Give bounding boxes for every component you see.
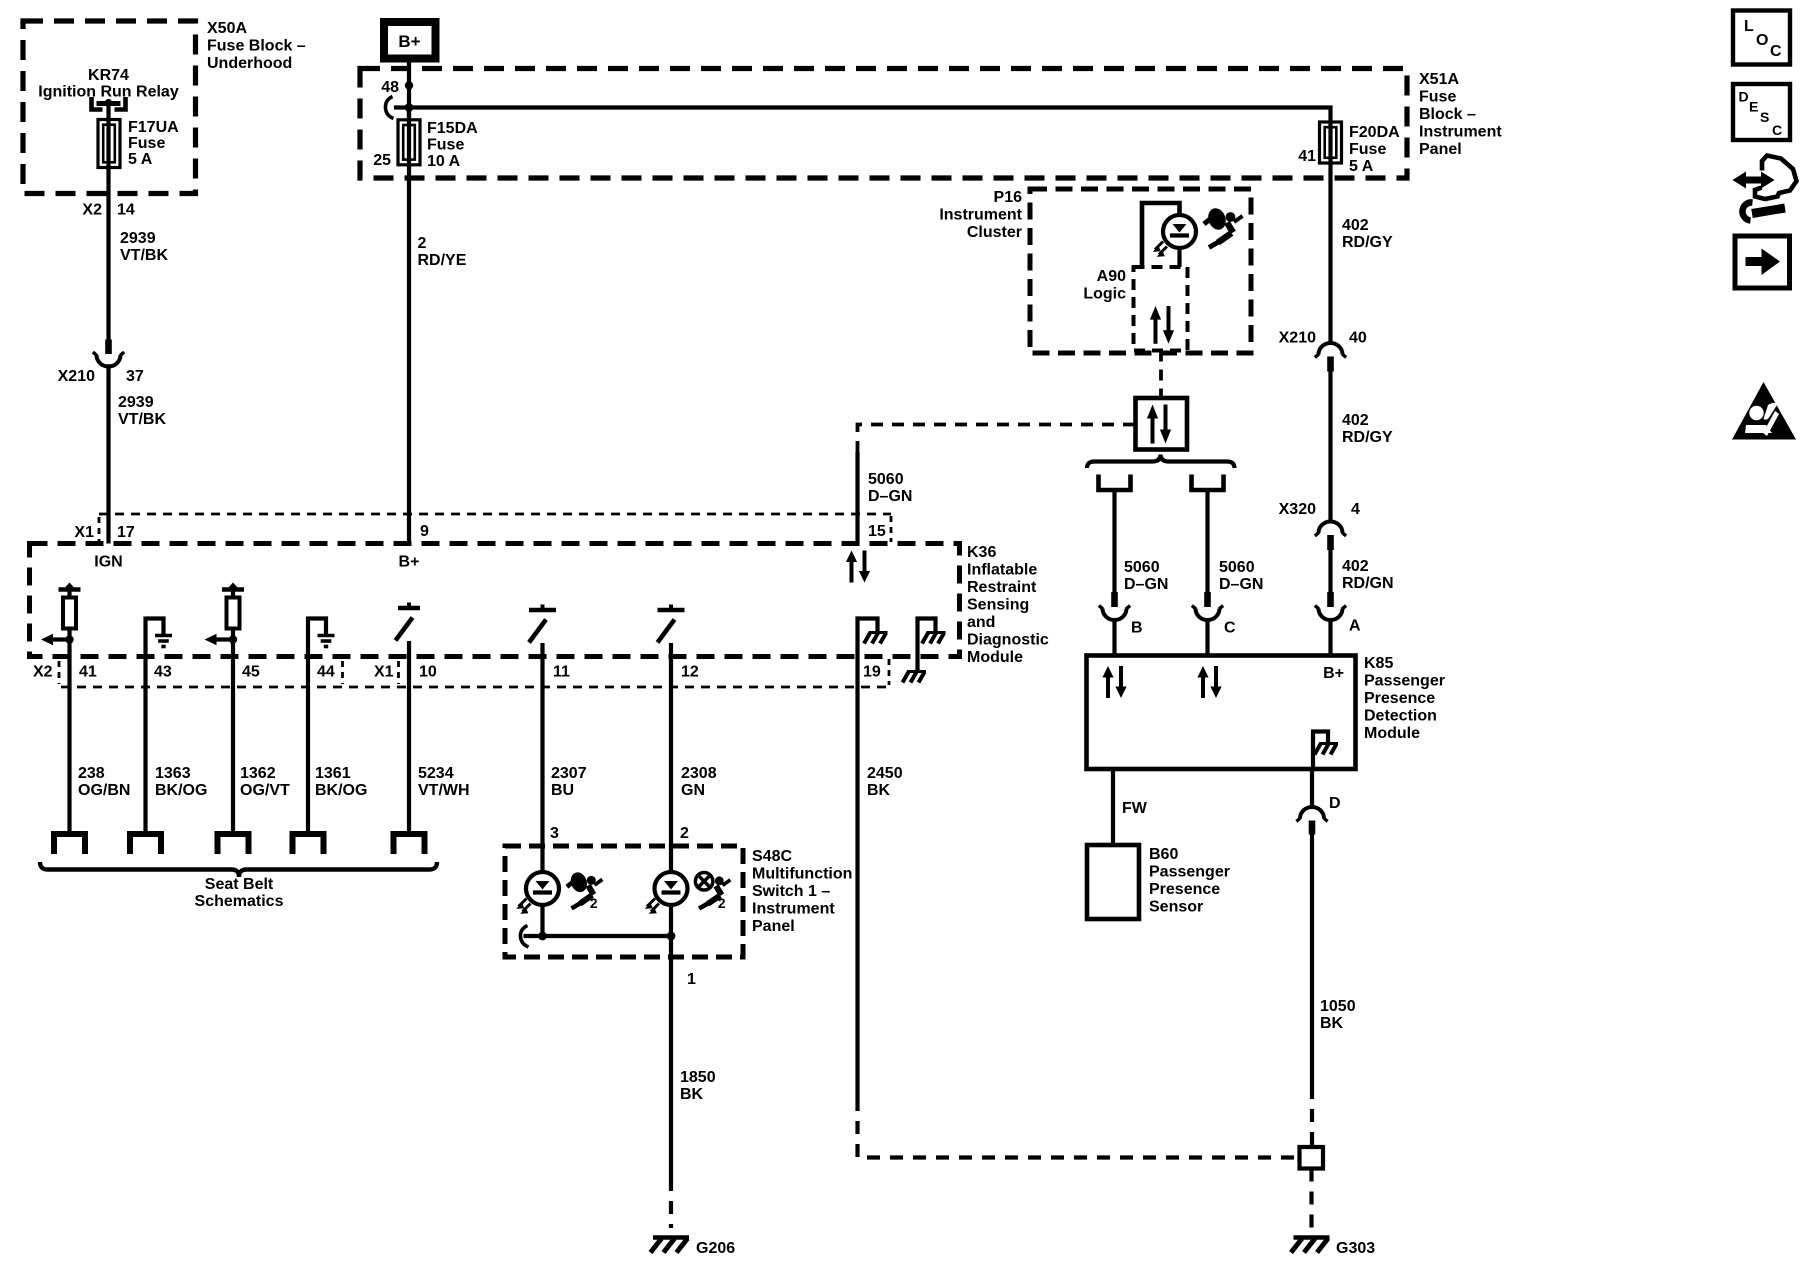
wire K36 pin 12 to S48C pin 2 xyxy=(669,657,673,873)
label A90 Logic xyxy=(1083,268,1126,303)
terminal bracket 1361 xyxy=(293,834,324,854)
label X210 40 xyxy=(1279,330,1367,347)
icon airbag with driver belt in S48C xyxy=(567,870,602,911)
ground G206 xyxy=(651,1238,736,1258)
svg-text:402: 402 xyxy=(1342,558,1369,575)
component seat belt driver pin 41 (resistor and arrow) xyxy=(41,583,81,657)
wire seat belt 238 OG/BN xyxy=(67,657,71,837)
svg-text:BK: BK xyxy=(867,782,891,799)
svg-text:FW: FW xyxy=(1122,800,1148,817)
wire label 1363 BK/OG xyxy=(155,765,207,799)
wire label 1850 BK xyxy=(680,1069,716,1103)
component switch pin 10 xyxy=(396,603,421,657)
svg-text:RD/GY: RD/GY xyxy=(1342,234,1393,251)
svg-text:OG/BN: OG/BN xyxy=(78,782,130,799)
wire seat belt 5234 VT/WH xyxy=(407,657,411,837)
wire seat belt 1363 BK/OG xyxy=(143,657,147,837)
battery feed B+ box xyxy=(384,22,436,59)
svg-text:D: D xyxy=(1329,795,1341,812)
svg-text:IGN: IGN xyxy=(94,554,122,571)
connector X320 pin 4 inline xyxy=(1315,522,1346,551)
wire S48C pin 1 down xyxy=(669,936,673,1178)
terminal bracket 1363 xyxy=(130,834,161,854)
indicator LED in cluster xyxy=(1153,215,1196,257)
svg-text:Underhood: Underhood xyxy=(207,55,292,72)
svg-text:BU: BU xyxy=(551,782,574,799)
icon airbag off with X in S48C xyxy=(695,873,730,911)
wire label 1362 OG/VT xyxy=(240,765,290,799)
svg-text:5 A: 5 A xyxy=(128,151,153,168)
svg-text:GN: GN xyxy=(681,782,705,799)
svg-text:Multifunction: Multifunction xyxy=(752,866,852,883)
wire label 5060 D-GN (C) xyxy=(1219,559,1263,593)
wire bus B+ horizontal to F20DA xyxy=(394,108,1331,123)
wire F15DA to K36 pin 9 xyxy=(407,165,411,544)
svg-text:S: S xyxy=(1760,109,1769,125)
pin row top K36 (X1 17, 9, 15) xyxy=(99,514,891,542)
wire dashed splice to G303 xyxy=(1309,1169,1313,1229)
node pin 48 junction dot xyxy=(381,79,413,96)
wire fuse F17UA to connector X210 xyxy=(106,167,110,340)
svg-text:D–GN: D–GN xyxy=(1219,576,1263,593)
svg-text:Detection: Detection xyxy=(1364,708,1437,725)
indicator LED left in S48C xyxy=(516,872,559,914)
wire label 1050 BK xyxy=(1320,998,1356,1032)
svg-text:C: C xyxy=(1770,43,1782,60)
svg-text:Block –: Block – xyxy=(1419,106,1476,123)
serial data arrows in K85 left xyxy=(1102,666,1126,698)
svg-text:X51A: X51A xyxy=(1419,71,1459,88)
wire label 5060 D-GN (B) xyxy=(1124,559,1168,593)
module K85 box xyxy=(1087,656,1356,770)
label X320 4 xyxy=(1279,501,1360,518)
svg-text:9: 9 xyxy=(420,523,429,540)
wire label 402 RD/GY upper xyxy=(1342,217,1393,251)
svg-text:BK: BK xyxy=(1320,1015,1344,1032)
svg-text:10: 10 xyxy=(419,664,437,681)
wire label 2939 VT/BK upper xyxy=(120,230,168,264)
label K85 Passenger Presence Detection Module xyxy=(1364,655,1445,742)
wire label 5234 VT/WH xyxy=(418,765,470,799)
svg-text:BK/OG: BK/OG xyxy=(155,782,207,799)
svg-text:B+: B+ xyxy=(1323,665,1344,682)
svg-text:RD/GN: RD/GN xyxy=(1342,575,1394,592)
hook symbol in S48C xyxy=(520,926,528,948)
connector X210 pin 40 inline xyxy=(1315,343,1346,372)
svg-text:Switch 1 –: Switch 1 – xyxy=(752,883,830,900)
svg-text:Logic: Logic xyxy=(1083,286,1126,303)
svg-text:Fuse: Fuse xyxy=(1349,141,1386,158)
connector K85 pin B inline xyxy=(1099,592,1143,637)
splice junction box xyxy=(1300,1147,1324,1169)
svg-text:2: 2 xyxy=(680,825,689,842)
svg-text:D: D xyxy=(1739,89,1749,105)
svg-text:G303: G303 xyxy=(1336,1240,1375,1257)
instrument cluster P16 box xyxy=(1030,189,1251,353)
svg-text:5060: 5060 xyxy=(868,471,904,488)
wire K36 pin 19 2450 BK xyxy=(855,657,859,1099)
svg-text:RD/GY: RD/GY xyxy=(1342,429,1393,446)
wire label 5060 D-GN (pin 15) xyxy=(868,471,912,505)
wire 5060 D-GN to connector B xyxy=(1112,490,1116,593)
svg-text:Instrument: Instrument xyxy=(939,207,1022,224)
wire B to K85 xyxy=(1112,621,1116,656)
svg-text:Instrument: Instrument xyxy=(1419,124,1502,141)
wire label 2 RD/YE xyxy=(418,235,467,269)
terminal bracket 238 xyxy=(54,834,85,854)
svg-text:1050: 1050 xyxy=(1320,998,1356,1015)
connector D inline xyxy=(1296,807,1327,835)
wire label 2939 VT/BK lower xyxy=(118,394,166,428)
svg-text:5060: 5060 xyxy=(1124,559,1160,576)
label K36 Inflatable Restraint Sensing and Diagnostic Module xyxy=(967,544,1049,666)
svg-text:43: 43 xyxy=(154,664,172,681)
svg-text:Sensor: Sensor xyxy=(1149,899,1203,916)
label KR74 Ignition Run Relay xyxy=(38,67,179,101)
switch assembly S48C box xyxy=(505,846,743,957)
svg-text:48: 48 xyxy=(381,79,399,96)
svg-text:4: 4 xyxy=(1351,501,1360,518)
svg-text:5 A: 5 A xyxy=(1349,158,1374,175)
brace under data link box xyxy=(1087,455,1235,469)
icon DESC box xyxy=(1733,84,1790,140)
icon LOC box xyxy=(1733,11,1790,65)
wire K85 pin D down xyxy=(1310,769,1314,807)
serial data arrows below pin 15 xyxy=(846,551,870,583)
wire label 402 RD/GN xyxy=(1342,558,1394,592)
component ground pin 43 (earth symbol) xyxy=(146,617,173,657)
logic block A90 box xyxy=(1134,267,1188,351)
fuse F17UA xyxy=(98,120,120,168)
svg-text:17: 17 xyxy=(117,524,135,541)
svg-text:A90: A90 xyxy=(1097,268,1126,285)
svg-text:Cluster: Cluster xyxy=(967,224,1022,241)
component seat belt driver pin 45 (resistor and arrow) xyxy=(205,583,245,657)
svg-text:Passenger: Passenger xyxy=(1149,864,1230,881)
connector K85 pin A inline xyxy=(1315,592,1361,635)
terminal bracket wire B xyxy=(1099,475,1131,491)
wire dashed 1050 BK to splice xyxy=(1310,1086,1314,1147)
wire X320 to connector A xyxy=(1328,550,1332,593)
wire A to K85 xyxy=(1328,621,1332,656)
ground G303 xyxy=(1291,1238,1375,1258)
svg-text:Module: Module xyxy=(967,649,1023,666)
serial data link box with arrows xyxy=(1136,398,1188,450)
svg-text:1363: 1363 xyxy=(155,765,191,782)
svg-text:1: 1 xyxy=(687,971,696,988)
svg-text:Presence: Presence xyxy=(1364,690,1435,707)
label F17UA Fuse 5 A xyxy=(128,119,179,168)
wire B+ box down xyxy=(407,59,411,121)
fuse F15DA xyxy=(398,107,420,165)
svg-text:Restraint: Restraint xyxy=(967,579,1037,596)
svg-text:B+: B+ xyxy=(398,32,420,51)
svg-text:Fuse: Fuse xyxy=(427,137,464,154)
icon diagnostic tool (arrows and wrench) xyxy=(1733,156,1797,221)
svg-text:VT/BK: VT/BK xyxy=(120,247,168,264)
pin label X1 17 xyxy=(74,524,134,541)
label X50A Fuse Block - Underhood xyxy=(207,20,306,72)
svg-text:F20DA: F20DA xyxy=(1349,124,1400,141)
label P16 Instrument Cluster xyxy=(939,189,1022,241)
svg-text:2308: 2308 xyxy=(681,765,717,782)
svg-text:G206: G206 xyxy=(696,1240,735,1257)
svg-text:Schematics: Schematics xyxy=(195,893,284,910)
wire dashed serial data to K36 pin 15 xyxy=(858,425,1136,453)
svg-text:14: 14 xyxy=(117,202,135,219)
bus continuation hook symbol xyxy=(385,97,393,119)
svg-text:5060: 5060 xyxy=(1219,559,1255,576)
svg-text:BK: BK xyxy=(680,1086,704,1103)
terminal bracket 1362 xyxy=(218,834,249,854)
svg-text:C: C xyxy=(1772,122,1782,138)
pin row bottom K36 xyxy=(59,659,889,687)
label F20DA Fuse 5 A xyxy=(1349,124,1400,175)
svg-text:2: 2 xyxy=(718,896,726,911)
svg-text:X1: X1 xyxy=(374,664,394,681)
terminal bracket wire C xyxy=(1192,475,1224,491)
svg-text:B+: B+ xyxy=(399,554,420,571)
svg-text:2939: 2939 xyxy=(120,230,156,247)
svg-text:Fuse: Fuse xyxy=(128,135,165,152)
wire K36 pin 15 lead xyxy=(855,452,859,544)
svg-text:Module: Module xyxy=(1364,725,1420,742)
wire K36 pin 11 to S48C pin 3 xyxy=(540,657,544,873)
wire label 2308 GN xyxy=(681,765,717,799)
svg-text:S48C: S48C xyxy=(752,848,792,865)
wire dashed 2450 BK to splice xyxy=(858,1098,1300,1158)
svg-text:402: 402 xyxy=(1342,412,1369,429)
wire bracket LED to A90 xyxy=(1142,203,1180,267)
svg-text:15: 15 xyxy=(868,523,886,540)
label Seat Belt Schematics xyxy=(195,876,284,910)
svg-text:10 A: 10 A xyxy=(427,153,461,170)
svg-text:2307: 2307 xyxy=(551,765,587,782)
svg-text:40: 40 xyxy=(1349,330,1367,347)
wire label 2307 BU xyxy=(551,765,587,799)
svg-text:11: 11 xyxy=(553,664,570,681)
svg-text:X320: X320 xyxy=(1279,501,1316,518)
label F15DA Fuse 10 A xyxy=(427,120,478,170)
serial data arrows in K85 right xyxy=(1197,666,1221,698)
wire LED to A90 logic xyxy=(1177,248,1181,267)
connector K85 pin C inline xyxy=(1192,592,1236,637)
fuse F20DA xyxy=(1320,122,1342,167)
serial data arrows in A90 xyxy=(1150,306,1174,344)
svg-text:Instrument: Instrument xyxy=(752,901,835,918)
svg-text:C: C xyxy=(1224,620,1236,637)
wire seat belt 1361 BK/OG xyxy=(306,657,310,837)
wire LED cathodes common xyxy=(524,905,676,940)
component ground internal second xyxy=(903,619,946,683)
relay KR74 contact symbol xyxy=(92,97,126,110)
svg-text:37: 37 xyxy=(126,368,144,385)
svg-text:5234: 5234 xyxy=(418,765,454,782)
svg-text:Seat Belt: Seat Belt xyxy=(205,876,274,893)
svg-text:B60: B60 xyxy=(1149,846,1178,863)
svg-text:Sensing: Sensing xyxy=(967,597,1029,614)
svg-text:2: 2 xyxy=(418,235,427,252)
svg-text:Panel: Panel xyxy=(752,918,795,935)
svg-text:X50A: X50A xyxy=(207,20,247,37)
svg-text:KR74: KR74 xyxy=(88,67,129,84)
icon airbag warning in cluster xyxy=(1204,206,1243,248)
svg-text:402: 402 xyxy=(1342,217,1369,234)
svg-text:X2: X2 xyxy=(33,664,53,681)
wire dashed to G206 xyxy=(669,1178,673,1228)
terminal bracket 5234 xyxy=(394,834,425,854)
svg-text:P16: P16 xyxy=(994,189,1023,206)
svg-text:25: 25 xyxy=(373,152,391,169)
svg-text:1361: 1361 xyxy=(315,765,351,782)
component ground pin 44 (earth symbol) xyxy=(308,617,335,657)
svg-text:X1: X1 xyxy=(74,524,94,541)
svg-text:Presence: Presence xyxy=(1149,881,1220,898)
module K36 box xyxy=(30,544,960,657)
svg-text:K36: K36 xyxy=(967,544,996,561)
wire X210 to K36 pin 17 xyxy=(106,364,110,543)
svg-text:D–GN: D–GN xyxy=(1124,576,1168,593)
svg-text:X210: X210 xyxy=(1279,330,1316,347)
component ground internal K85 xyxy=(1313,732,1338,770)
connector X210 pin 37 inline xyxy=(93,340,124,367)
wire label 402 RD/GY lower xyxy=(1342,412,1393,446)
fuse block X51A box xyxy=(360,69,1407,179)
label B60 Passenger Presence Sensor xyxy=(1149,846,1230,916)
svg-text:Ignition Run Relay: Ignition Run Relay xyxy=(38,84,179,101)
svg-text:2: 2 xyxy=(590,896,598,911)
wire dashed A90 to data box xyxy=(1159,351,1163,399)
svg-text:44: 44 xyxy=(317,664,335,681)
pin label X2 14 xyxy=(82,202,134,219)
wire X210-40 to X320 xyxy=(1328,372,1332,522)
svg-text:1362: 1362 xyxy=(240,765,276,782)
svg-text:B: B xyxy=(1131,620,1143,637)
svg-text:Inflatable: Inflatable xyxy=(967,562,1037,579)
svg-text:L: L xyxy=(1744,18,1754,35)
wire label 2450 BK xyxy=(867,765,903,799)
node bus junction dot xyxy=(405,103,414,112)
svg-text:45: 45 xyxy=(242,664,260,681)
svg-text:Diagnostic: Diagnostic xyxy=(967,632,1049,649)
component switch pin 11 xyxy=(529,605,556,657)
svg-text:O: O xyxy=(1756,32,1768,49)
wire 5060 D-GN to connector C xyxy=(1205,490,1209,593)
wire C to K85 xyxy=(1205,621,1209,656)
svg-text:RD/YE: RD/YE xyxy=(418,252,467,269)
fuse block X50A box xyxy=(23,21,196,194)
wire F20DA to X210 pin 40 xyxy=(1328,167,1332,343)
label X51A Fuse Block - Instrument Panel xyxy=(1419,71,1502,158)
pin label X2 41 43 45 44 X1 10 11 12 19 xyxy=(33,664,881,681)
svg-text:BK/OG: BK/OG xyxy=(315,782,367,799)
svg-text:Fuse Block –: Fuse Block – xyxy=(207,38,306,55)
label S48C Multifunction Switch 1 - Instrument Panel xyxy=(752,848,852,935)
indicator LED right in S48C xyxy=(645,872,688,914)
svg-text:and: and xyxy=(967,614,995,631)
svg-text:Passenger: Passenger xyxy=(1364,673,1445,690)
wire label 1361 BK/OG xyxy=(315,765,367,799)
label X210 37 xyxy=(58,368,144,385)
sensor B60 box xyxy=(1087,845,1139,919)
svg-text:Panel: Panel xyxy=(1419,141,1462,158)
wire 1050 BK xyxy=(1310,835,1314,1087)
brace seat belt schematics xyxy=(40,862,437,877)
svg-text:2450: 2450 xyxy=(867,765,903,782)
svg-text:A: A xyxy=(1349,618,1361,635)
svg-text:1850: 1850 xyxy=(680,1069,716,1086)
svg-text:X2: X2 xyxy=(82,202,102,219)
svg-text:238: 238 xyxy=(78,765,105,782)
svg-text:3: 3 xyxy=(550,825,559,842)
svg-text:41: 41 xyxy=(79,664,97,681)
icon airbag caution triangle xyxy=(1732,382,1796,440)
svg-text:E: E xyxy=(1749,99,1758,115)
svg-text:Fuse: Fuse xyxy=(1419,89,1456,106)
component ground pin 19 internal xyxy=(858,619,888,657)
svg-text:D–GN: D–GN xyxy=(868,488,912,505)
svg-text:41: 41 xyxy=(1298,148,1316,165)
wire label 238 OG/BN xyxy=(78,765,130,799)
svg-text:12: 12 xyxy=(681,664,699,681)
svg-text:OG/VT: OG/VT xyxy=(240,782,290,799)
component switch pin 12 xyxy=(658,605,685,657)
wire K85 pin FW to B60 xyxy=(1111,769,1115,845)
svg-text:VT/WH: VT/WH xyxy=(418,782,470,799)
svg-text:2939: 2939 xyxy=(118,394,154,411)
wire KR74 to fuse F17UA xyxy=(106,104,110,121)
svg-text:VT/BK: VT/BK xyxy=(118,411,166,428)
svg-text:19: 19 xyxy=(863,664,881,681)
svg-text:F17UA: F17UA xyxy=(128,119,179,136)
svg-text:X210: X210 xyxy=(58,368,95,385)
svg-text:F15DA: F15DA xyxy=(427,120,478,137)
icon forward arrow box xyxy=(1735,236,1790,288)
wire seat belt 1362 OG/VT xyxy=(231,657,235,837)
svg-text:K85: K85 xyxy=(1364,655,1393,672)
